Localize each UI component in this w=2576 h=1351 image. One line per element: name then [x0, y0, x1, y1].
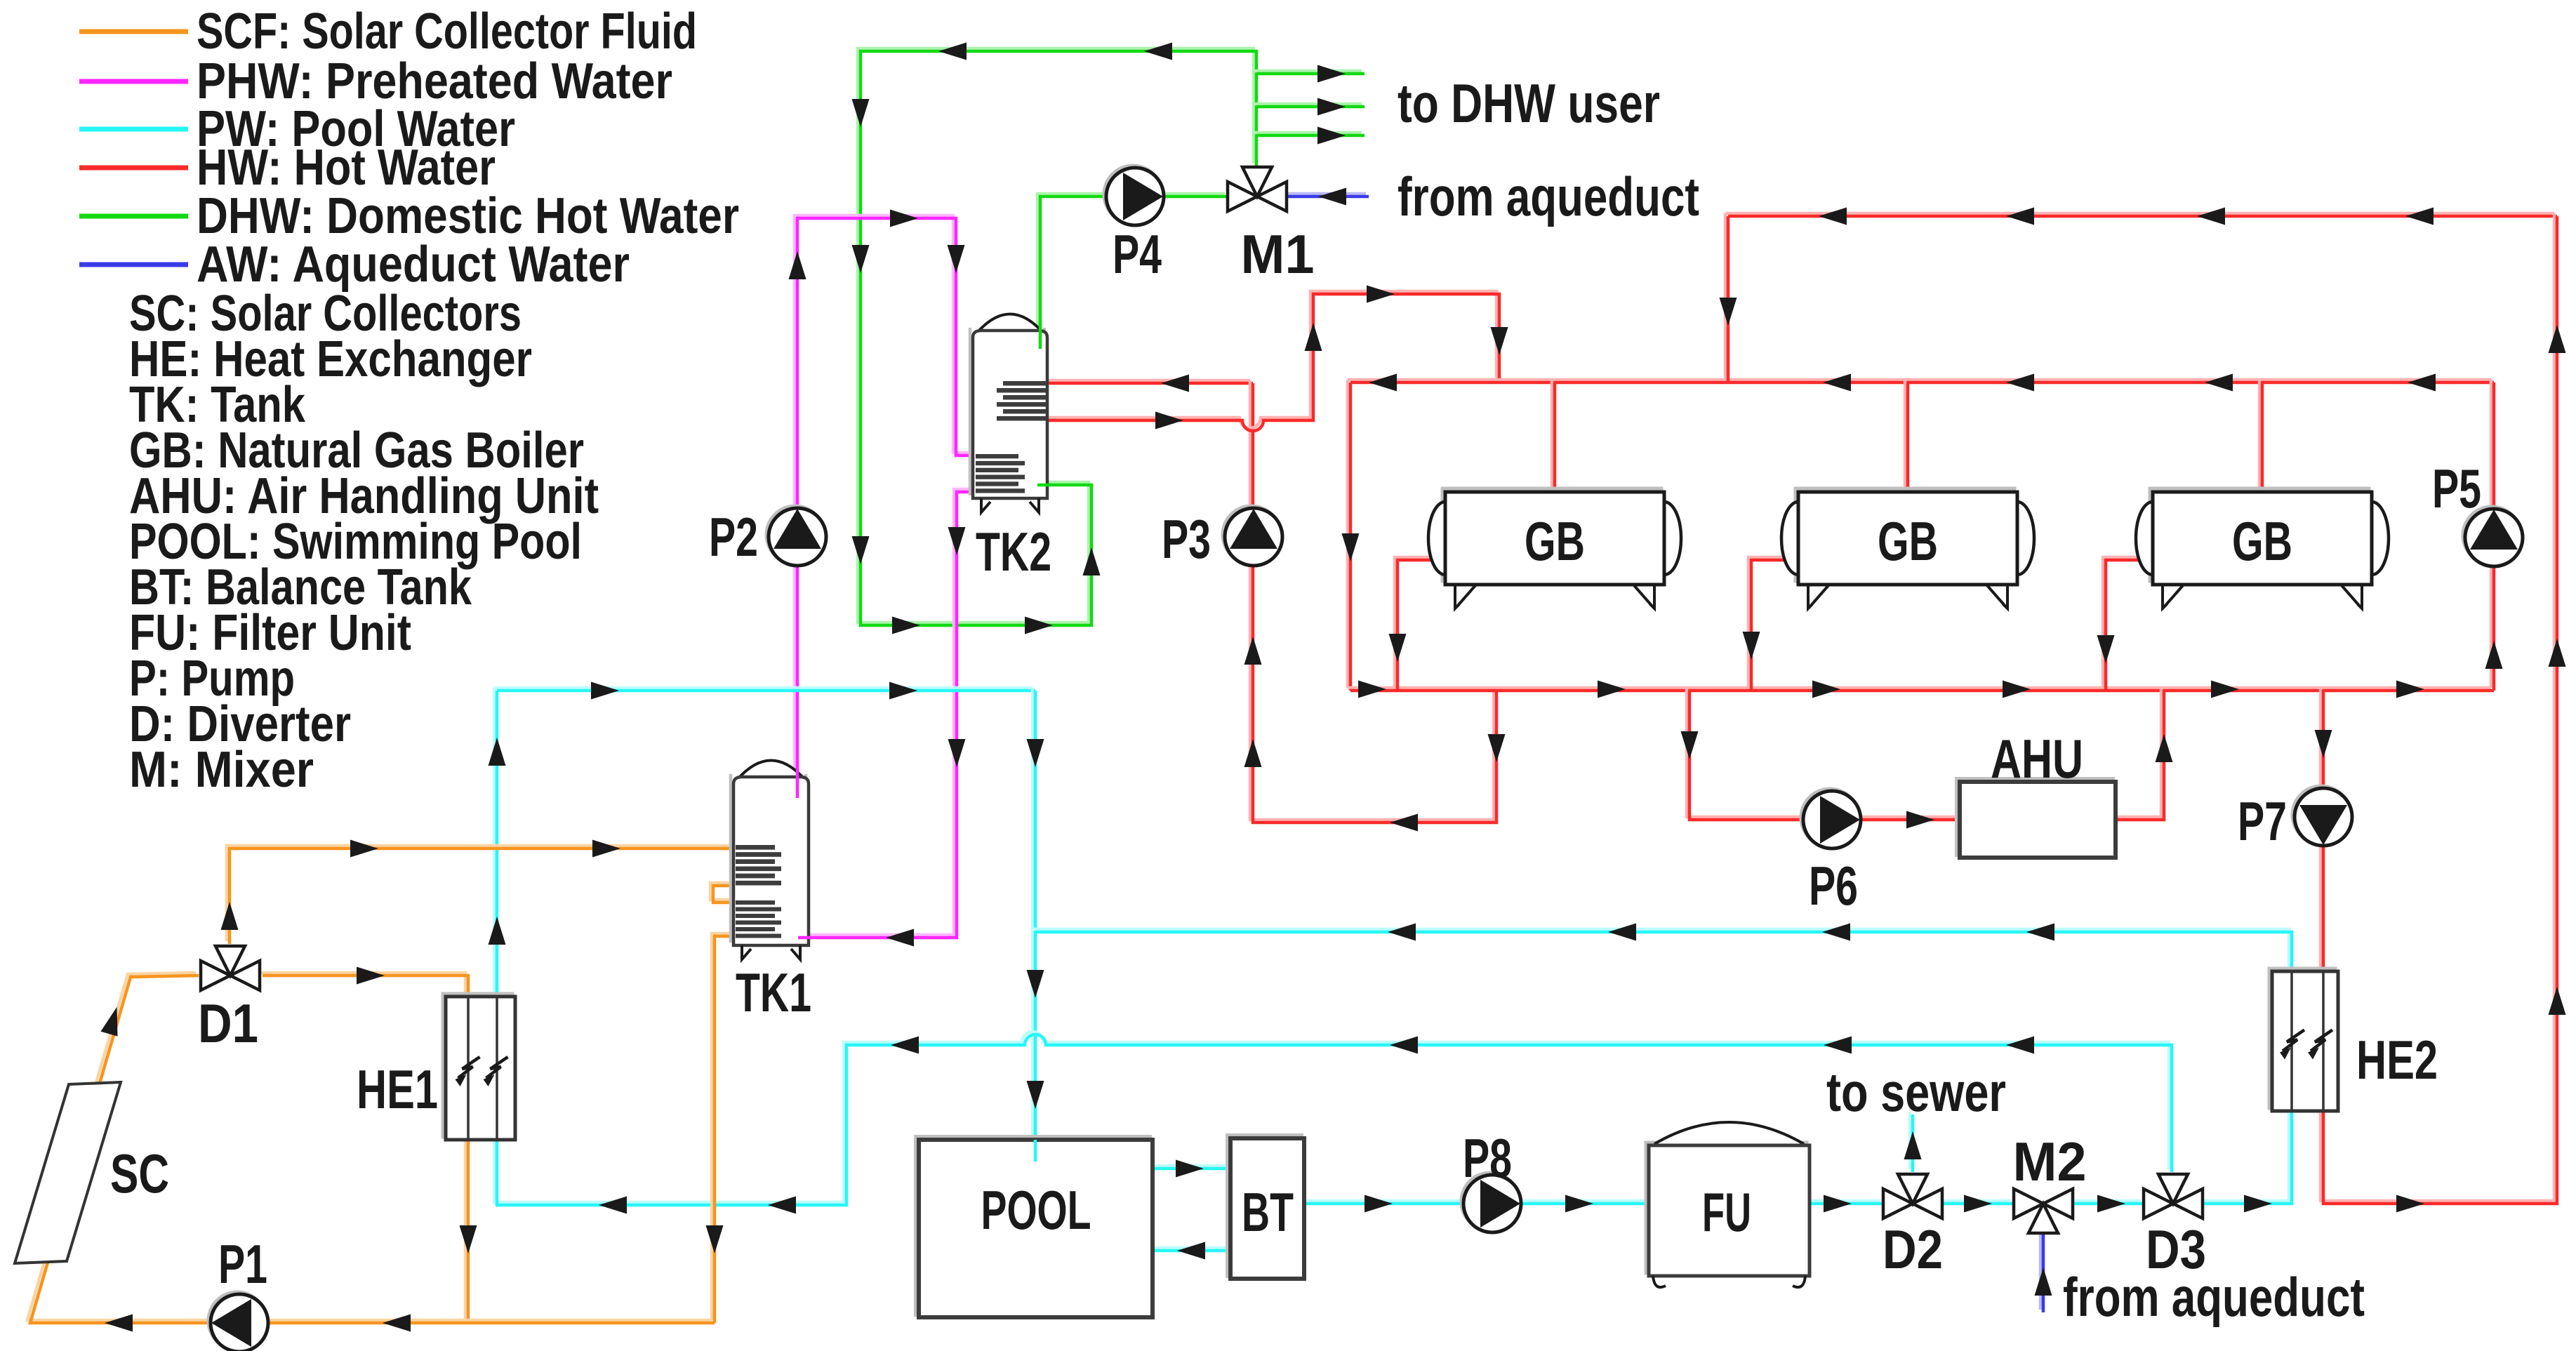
wire PW D2 to sewer: [1904, 1112, 1922, 1172]
legend line AW: [79, 262, 188, 267]
svg-text:FU: FU: [1702, 1181, 1751, 1243]
wire HW TK2 coil return to top bus: [1046, 286, 1508, 432]
svg-text:M: Mixer: M: Mixer: [129, 742, 314, 798]
balance tank BT: [1228, 1136, 1304, 1279]
legend line HW: [79, 166, 188, 171]
pump P3: [1223, 506, 1282, 566]
heat exchanger HE1: [443, 994, 515, 1140]
diverter D2: [1883, 1174, 1942, 1218]
wire AW to M2: [2035, 1230, 2052, 1312]
mixer M1: [1228, 167, 1287, 211]
wire SCF HE1 drop: [460, 1137, 477, 1323]
wire HW HE2 out riser: [2321, 213, 2566, 1213]
svg-text:AW: Aqueduct Water: AW: Aqueduct Water: [197, 237, 630, 293]
wire HW GB2 top pipe: [1905, 380, 1908, 492]
svg-text:D2: D2: [1883, 1218, 1943, 1280]
wire PHW TK1 bottom port: [798, 936, 811, 940]
tank TK2 lower coil: [976, 454, 1025, 493]
wire PHW into TK1 top: [796, 759, 799, 798]
svg-text:P8: P8: [1463, 1127, 1512, 1189]
svg-text:HE2: HE2: [2356, 1029, 2438, 1091]
wire PW D3 to HE2 cold in: [2200, 1108, 2292, 1213]
wire PW into POOL: [1034, 1140, 1037, 1162]
wire HW header drop: [1720, 213, 1737, 382]
wire DHW user branch 1: [1254, 65, 1365, 83]
wire PW FU to D2: [1807, 1195, 1883, 1213]
svg-text:P4: P4: [1113, 223, 1162, 285]
wire DHW user branch 3: [1254, 127, 1365, 145]
wire PW pool feed drop: [1027, 688, 1044, 1140]
svg-text:TK2: TK2: [976, 521, 1051, 583]
svg-text:P5: P5: [2432, 458, 2481, 519]
wire PHW TK1-top via P2 to TK2 coil in: [789, 210, 978, 799]
wire HW GB3 outlet: [2097, 557, 2156, 691]
AHU unit: [1957, 779, 2116, 858]
filter unit FU: [1646, 1122, 1810, 1287]
wire HW GB3 top pipe: [2259, 380, 2262, 492]
wire HW GB1 outlet: [1389, 557, 1448, 691]
svg-text:GB: GB: [1525, 510, 1585, 572]
wire HW AHU return: [2114, 688, 2173, 820]
wire HW P5 riser: [2485, 380, 2503, 691]
wire PW pool to BT upper: [1150, 1160, 1230, 1178]
svg-text:GB: GB: [2232, 510, 2292, 572]
svg-text:BT: BT: [1242, 1181, 1294, 1243]
svg-text:HE1: HE1: [357, 1058, 438, 1120]
wire HW boiler bottom bus: [1348, 681, 2494, 698]
boiler GB1: [1428, 488, 1681, 608]
tank TK1: [731, 761, 809, 960]
wire DHW into TK2 top: [1039, 319, 1042, 349]
legend line DHW: [79, 214, 188, 219]
legend line SCF: [79, 29, 188, 34]
svg-text:from aqueduct: from aqueduct: [1397, 166, 1699, 227]
diverter D1: [201, 946, 260, 990]
pump P5: [2463, 507, 2523, 566]
boiler GB2: [1781, 488, 2034, 608]
wire DHW TK2 bottom port: [1037, 484, 1050, 487]
svg-text:P3: P3: [1162, 508, 1211, 570]
wire PW HE2 heated return: [1033, 924, 2292, 972]
wire PW M2 to D3: [2070, 1195, 2144, 1213]
tank TK2 upper coil: [997, 381, 1046, 421]
svg-text:SCF: Solar Collector Fluid: SCF: Solar Collector Fluid: [197, 4, 697, 60]
wire PW D2 to M2: [1939, 1195, 2014, 1213]
pump P2: [766, 506, 826, 566]
svg-text:TK1: TK1: [736, 961, 811, 1023]
svg-text:HW: Hot Water: HW: Hot Water: [197, 140, 496, 196]
svg-text:POOL: POOL: [981, 1179, 1091, 1241]
svg-text:D1: D1: [198, 992, 258, 1054]
wire PW HE1-top to pool feed: [494, 682, 1035, 700]
wire DHW TK2-top to P4 to M1: [1037, 194, 1228, 349]
mixer M2: [2014, 1189, 2073, 1233]
pump P1: [208, 1292, 268, 1351]
wire SCF D1 to HE1: [260, 967, 468, 999]
wire HW P7 drop to HE2: [2315, 688, 2332, 971]
svg-text:M2: M2: [2013, 1131, 2087, 1192]
wire HW GB1 top pipe: [1552, 380, 1555, 492]
pump P7: [2292, 786, 2352, 846]
pump P6: [1801, 789, 1861, 848]
boiler GB3: [2136, 488, 2389, 608]
wire DHW M1 riser + top run + TK2 bottom loop: [852, 43, 1257, 634]
diverter D3: [2144, 1174, 2203, 1218]
wire HW return header: [1725, 208, 2557, 225]
pump P8: [1461, 1173, 1521, 1232]
svg-text:P2: P2: [709, 506, 758, 568]
wire HW GB2 outlet: [1743, 557, 1801, 691]
wire HW P3 to TK2 coil: [1046, 375, 1253, 392]
wire SCF return to SC via P1: [27, 973, 715, 1332]
tank TK1 lower coil: [736, 900, 781, 938]
wire HW bus downcomer: [1342, 380, 1360, 691]
pump P4: [1104, 166, 1164, 225]
wire SCF D1 to TK1 coil: [221, 840, 735, 945]
svg-text:P1: P1: [218, 1233, 267, 1295]
wire SCF TK1 return drop: [706, 933, 736, 1323]
svg-text:to sewer: to sewer: [1826, 1061, 2006, 1123]
wire AW to M1: [1284, 188, 1369, 206]
svg-text:SC: SC: [110, 1143, 169, 1204]
svg-text:DHW: Domestic Hot Water: DHW: Domestic Hot Water: [197, 188, 739, 244]
wire SCF TK1 coil jog: [710, 883, 735, 903]
legend line PHW: [79, 79, 188, 84]
svg-text:from aqueduct: from aqueduct: [2063, 1266, 2365, 1328]
solar collector SC: [15, 1082, 121, 1263]
wire HW P3 supply from GB bus: [1244, 380, 1506, 832]
wire PW D3 branch to HE1: [489, 688, 2172, 1214]
tank TK2: [970, 314, 1047, 513]
wire HW boiler top bus: [1348, 374, 2494, 392]
tank TK1 upper coil: [736, 845, 781, 886]
svg-text:M1: M1: [1241, 223, 1315, 285]
wire PW BT to pool lower: [1150, 1242, 1230, 1260]
wire PW BT to FU via P8: [1301, 1195, 1649, 1213]
wire HW AHU loop via P6: [1681, 688, 1959, 829]
svg-text:AHU: AHU: [1991, 728, 2083, 790]
legend line PW: [79, 127, 188, 132]
svg-text:GB: GB: [1878, 510, 1938, 572]
heat exchanger HE2: [2269, 969, 2338, 1111]
wire DHW user branch 2: [1254, 98, 1365, 116]
svg-text:P7: P7: [2238, 790, 2287, 852]
wire PHW TK2 coil out to TK1 bottom: [795, 489, 977, 947]
svg-text:to DHW user: to DHW user: [1397, 72, 1660, 134]
svg-text:P6: P6: [1809, 855, 1858, 917]
POOL basin: [916, 1137, 1153, 1317]
